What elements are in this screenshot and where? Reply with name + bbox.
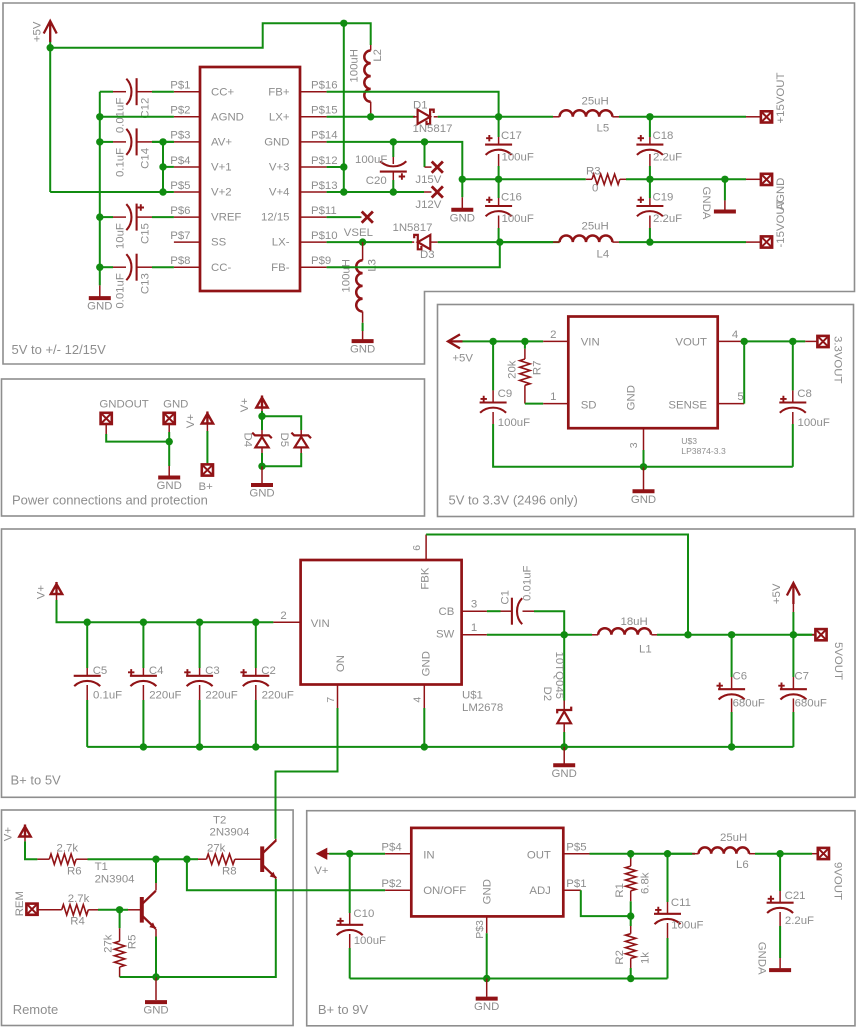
wire	[255, 622, 257, 668]
capacitor C21 plates	[767, 902, 794, 904]
svg-text:100uF: 100uF	[502, 152, 534, 164]
pin P$5 OUT	[563, 853, 589, 855]
wire	[498, 117, 500, 137]
pin 5 SENSE	[718, 403, 745, 405]
junction C3 gnd	[196, 743, 203, 750]
wire	[120, 976, 156, 978]
zener D5 body	[291, 433, 311, 439]
pin 4 VOUT	[718, 340, 745, 342]
wire	[423, 708, 425, 747]
svg-text:V+1: V+1	[211, 162, 232, 174]
pad REM box	[26, 904, 37, 915]
svg-text:4: 4	[412, 697, 424, 703]
capacitor C8 plates	[779, 401, 806, 403]
svg-text:220uF: 220uF	[262, 690, 294, 702]
transistor T2 body	[260, 846, 264, 872]
wire	[327, 241, 412, 243]
wire	[649, 179, 651, 198]
svg-text:GND: GND	[482, 879, 494, 904]
svg-text:5V to +/- 12/15V: 5V to +/- 12/15V	[12, 342, 107, 357]
plus C9	[481, 396, 487, 402]
wire	[86, 622, 88, 668]
svg-text:GND: GND	[552, 768, 577, 780]
pad B+	[202, 464, 213, 475]
ground GND box4	[553, 763, 575, 767]
svg-text:GND: GND	[474, 1001, 499, 1013]
pin P$15 LX+	[300, 116, 327, 118]
svg-text:5: 5	[737, 391, 743, 403]
wire	[498, 166, 500, 179]
svg-text:P$9: P$9	[311, 255, 331, 267]
wire	[120, 909, 128, 911]
pin P$2 ON/OFF	[385, 889, 411, 891]
junction T1 collector	[152, 856, 159, 863]
capacitor C10 plates	[336, 924, 363, 926]
wire	[643, 450, 645, 467]
wire	[487, 634, 592, 636]
zener D5	[300, 430, 302, 435]
junction P$3	[96, 138, 103, 145]
svg-text:25uH: 25uH	[582, 96, 609, 108]
wire	[152, 141, 174, 143]
svg-text:2: 2	[550, 329, 556, 341]
plus C10	[337, 918, 343, 924]
svg-text:C5: C5	[93, 665, 108, 677]
svg-text:OUT: OUT	[527, 850, 551, 862]
svg-text:2.2uF: 2.2uF	[653, 152, 682, 164]
capacitor C15 plates	[136, 204, 138, 231]
svg-text:C13: C13	[139, 273, 151, 294]
svg-text:6: 6	[411, 545, 423, 551]
wire	[255, 700, 257, 747]
diode D1 1N5817	[413, 116, 418, 118]
svg-text:GND: GND	[631, 494, 656, 506]
resistor R2 zigzag	[626, 934, 636, 959]
svg-text:ON/OFF: ON/OFF	[423, 885, 466, 897]
junction gnd mid	[459, 176, 466, 183]
svg-text:GND: GND	[264, 137, 289, 149]
plus C7	[778, 683, 784, 689]
junction divider	[627, 912, 634, 919]
svg-text:R7: R7	[532, 361, 544, 376]
svg-text:0.1uF: 0.1uF	[93, 690, 122, 702]
svg-text:7: 7	[325, 697, 337, 703]
svg-text:100uF: 100uF	[355, 154, 387, 166]
svg-text:C6: C6	[733, 671, 748, 683]
junction base R5	[116, 906, 123, 913]
junction C7	[790, 631, 797, 638]
svg-text:V+: V+	[36, 585, 48, 600]
svg-text:GND: GND	[350, 344, 375, 356]
junction C11 top	[664, 850, 671, 857]
wire	[362, 323, 364, 331]
wire D5 bottom	[262, 453, 301, 466]
plus C15	[138, 204, 144, 210]
wire	[99, 92, 101, 286]
svg-text:27k: 27k	[103, 934, 115, 953]
wire remote to on/off	[187, 859, 385, 890]
zener D4 body	[252, 433, 272, 439]
junction C21	[776, 850, 783, 857]
svg-text:6.8k: 6.8k	[640, 872, 652, 894]
capacitor C4 plates	[130, 675, 157, 677]
wire	[492, 341, 494, 390]
svg-text:2.2uF: 2.2uF	[785, 915, 814, 927]
svg-text:P$2: P$2	[381, 878, 401, 890]
wire FB+ right	[327, 92, 499, 117]
svg-text:C20: C20	[366, 175, 387, 187]
svg-text:25uH: 25uH	[720, 832, 747, 844]
resistor R3 0	[586, 178, 592, 180]
junction GNDA	[721, 176, 728, 183]
wire	[499, 178, 586, 180]
wire P14 gnd	[327, 142, 463, 179]
svg-text:220uF: 220uF	[205, 690, 237, 702]
wire	[792, 612, 794, 635]
wire	[724, 179, 726, 200]
svg-text:1: 1	[471, 622, 477, 634]
svg-text:P$12: P$12	[311, 155, 338, 167]
svg-text:C18: C18	[653, 130, 674, 142]
wire	[462, 178, 498, 180]
wire	[563, 732, 565, 747]
svg-text:Power connections and protecti: Power connections and protection	[12, 492, 208, 507]
capacitor C3 plates	[186, 675, 213, 677]
svg-text:4: 4	[732, 329, 738, 341]
svg-text:100uF: 100uF	[671, 920, 703, 932]
svg-text:C1: C1	[500, 590, 512, 605]
svg-text:C17: C17	[501, 130, 522, 142]
svg-text:1: 1	[550, 391, 556, 403]
svg-text:C10: C10	[353, 908, 374, 920]
svg-text:FB+: FB+	[268, 86, 290, 98]
ground GND box6	[476, 997, 498, 1001]
svg-text:GND: GND	[163, 399, 188, 411]
junction C20 bottom	[390, 188, 397, 195]
wire	[524, 341, 526, 348]
pad GNDOUT box	[101, 413, 112, 424]
svg-text:LX-: LX-	[272, 237, 290, 249]
svg-text:P$14: P$14	[311, 130, 338, 142]
svg-text:LM2678: LM2678	[462, 702, 503, 714]
svg-text:C16: C16	[501, 192, 522, 204]
inductor L3 coil	[356, 260, 362, 311]
svg-text:CC+: CC+	[211, 86, 234, 98]
junction C20 top	[390, 138, 397, 145]
wire D5 top	[262, 416, 301, 430]
+5V arrow box4	[787, 583, 800, 604]
wire	[725, 178, 746, 180]
pad -15VOUT	[761, 236, 772, 247]
section frame: B+ to 5V	[2, 529, 856, 797]
svg-text:AGND: AGND	[211, 111, 244, 123]
svg-text:P$7: P$7	[170, 230, 190, 242]
junction C18 C19	[646, 176, 653, 183]
wire	[779, 854, 781, 891]
IC U1 body	[200, 67, 300, 291]
capacitor C11 plates	[654, 913, 681, 915]
pin P$7 SS	[174, 241, 200, 243]
svg-text:LX+: LX+	[269, 111, 290, 123]
svg-text:ON: ON	[335, 655, 347, 672]
junction gnd pin box6	[483, 975, 490, 982]
wire	[498, 228, 500, 242]
wire	[498, 179, 500, 198]
svg-text:B+: B+	[199, 481, 214, 493]
svg-text:D1: D1	[413, 100, 428, 112]
wire	[649, 166, 651, 179]
capacitor C5 plates	[74, 675, 101, 677]
wire	[630, 901, 632, 916]
pin P$14 GND	[300, 141, 327, 143]
V+ supply box5	[19, 825, 30, 837]
wire	[261, 411, 263, 416]
wire	[261, 416, 263, 430]
svg-text:C9: C9	[498, 388, 513, 400]
svg-text:L5: L5	[597, 123, 610, 135]
wire	[392, 142, 394, 157]
pin P$12 V+3	[300, 166, 327, 168]
svg-text:V+2: V+2	[211, 187, 232, 199]
section frame: 5V to +/- 12/15V	[3, 3, 855, 364]
svg-text:C8: C8	[797, 388, 812, 400]
svg-text:ADJ: ADJ	[529, 885, 551, 897]
pin 3 CB	[462, 610, 487, 612]
junction P$6	[96, 213, 103, 220]
ground GND box3	[633, 489, 655, 493]
svg-text:0: 0	[592, 183, 598, 195]
wire C7 gnd	[792, 712, 794, 747]
svg-text:REM: REM	[14, 891, 26, 916]
svg-text:GND: GND	[87, 301, 112, 313]
junction C4	[140, 619, 147, 626]
wire	[793, 634, 812, 636]
svg-text:L2: L2	[372, 49, 384, 62]
wire FB- loop	[327, 242, 500, 267]
wire	[743, 341, 745, 403]
wire	[499, 116, 553, 118]
plus C17	[486, 135, 492, 141]
wire	[500, 241, 553, 243]
wire +5V top run	[50, 23, 371, 47]
svg-text:L3: L3	[366, 259, 378, 272]
svg-text:10TQ045: 10TQ045	[553, 652, 565, 700]
svg-text:L1: L1	[639, 644, 652, 656]
svg-text:CC-: CC-	[211, 262, 231, 274]
wire T1 emitter	[155, 929, 157, 937]
wire fbk	[426, 535, 688, 635]
svg-text:5VOUT: 5VOUT	[832, 642, 844, 680]
svg-text:L4: L4	[597, 249, 610, 261]
wire	[87, 746, 424, 748]
plus C4	[128, 669, 134, 675]
wire	[329, 853, 385, 855]
pad AGND	[761, 174, 772, 185]
svg-text:1N5817: 1N5817	[393, 222, 433, 234]
svg-text:P$1: P$1	[170, 80, 190, 92]
resistor R4 zigzag	[62, 905, 89, 915]
wire	[152, 266, 174, 268]
inductor L6 coil	[699, 847, 749, 853]
svg-text:V+3: V+3	[269, 162, 290, 174]
pin P$10 LX-	[300, 241, 327, 243]
junction C8 top	[789, 338, 796, 345]
wire	[667, 854, 669, 902]
pin P$11 12/15	[300, 216, 327, 218]
section frame: B+ to 9V	[307, 811, 855, 1026]
ground GND L3	[352, 339, 374, 343]
V+ supply B+	[202, 412, 213, 424]
svg-text:P$4: P$4	[170, 155, 190, 167]
junction C6	[728, 631, 735, 638]
wire c1 sw	[534, 611, 564, 635]
wire	[755, 853, 780, 855]
svg-text:P$6: P$6	[170, 205, 190, 217]
junction C10	[346, 850, 353, 857]
wire	[155, 859, 157, 883]
inductor L2 coil	[364, 51, 370, 102]
wire	[438, 116, 499, 118]
svg-text:100uH: 100uH	[340, 259, 352, 293]
svg-text:C14: C14	[139, 148, 151, 169]
svg-text:12/15: 12/15	[261, 212, 290, 224]
pin P$6 VREF	[174, 216, 200, 218]
IC U2 body	[411, 828, 563, 917]
svg-text:18uH: 18uH	[621, 616, 648, 628]
wire	[142, 622, 144, 668]
svg-text:P$1: P$1	[566, 878, 586, 890]
svg-text:GND: GND	[249, 488, 274, 500]
svg-text:P$4: P$4	[381, 842, 401, 854]
wire	[657, 634, 815, 636]
wire	[50, 191, 163, 193]
svg-text:IN: IN	[423, 850, 434, 862]
svg-text:2N3904: 2N3904	[210, 827, 250, 839]
svg-text:R5: R5	[126, 935, 138, 950]
wire	[461, 179, 463, 197]
resistor R5 zigzag	[114, 941, 124, 967]
junction +5V rail	[47, 44, 54, 51]
svg-text:AV+: AV+	[211, 137, 232, 149]
junction D1 out	[495, 113, 502, 120]
capacitor C19 plates	[636, 205, 663, 207]
svg-text:100uF: 100uF	[502, 213, 534, 225]
capacitor C12 plates	[136, 78, 138, 105]
ground GNDA bar	[714, 210, 736, 214]
svg-text:680uF: 680uF	[733, 698, 765, 710]
svg-text:J15V: J15V	[415, 174, 441, 186]
ground GND center	[451, 208, 473, 212]
jumper J15V	[432, 162, 443, 173]
wire	[424, 746, 793, 748]
pin P$4 IN	[385, 853, 411, 855]
svg-text:C15: C15	[139, 223, 151, 244]
wire	[155, 937, 157, 978]
wire	[163, 166, 174, 168]
wire	[780, 853, 812, 855]
pin P$5 V+2	[174, 191, 200, 193]
pad 5VOUT box	[815, 629, 826, 640]
pin P$1 CC+	[174, 91, 200, 93]
svg-text:680uF: 680uF	[795, 698, 827, 710]
svg-text:P$3: P$3	[474, 920, 486, 939]
svg-text:V+: V+	[3, 827, 15, 842]
svg-text:27k: 27k	[207, 843, 226, 855]
wire	[261, 453, 263, 466]
svg-text:25uH: 25uH	[582, 221, 609, 233]
wire	[563, 635, 565, 701]
plus C18	[638, 135, 644, 141]
resistor R1 zigzag	[626, 866, 636, 891]
svg-text:+15VOUT: +15VOUT	[775, 72, 787, 123]
junction R2 gnd	[627, 975, 634, 982]
inductor L5 coil	[560, 110, 613, 117]
pin 4 GND stub	[423, 685, 425, 709]
wire	[86, 700, 88, 747]
wire	[100, 266, 113, 268]
svg-text:D5: D5	[278, 433, 290, 448]
svg-text:R3: R3	[586, 166, 601, 178]
svg-text:100uF: 100uF	[798, 417, 830, 429]
svg-text:C4: C4	[149, 665, 164, 677]
pin 6 FBK stub	[425, 535, 427, 561]
junction gnd pads	[166, 438, 173, 445]
pin 3 GND stub	[643, 428, 645, 450]
svg-text:0.01uF: 0.01uF	[114, 273, 126, 309]
IC U1 LM2678 body	[301, 560, 462, 685]
svg-text:FBK: FBK	[420, 567, 432, 590]
wire	[98, 909, 120, 911]
svg-text:VREF: VREF	[211, 212, 241, 224]
plus C16	[486, 197, 492, 203]
junction P$4	[159, 163, 166, 170]
resistor R3 zigzag	[592, 174, 620, 184]
pin 7 ON stub	[337, 685, 339, 709]
wire	[744, 340, 805, 342]
plus C19	[638, 197, 644, 203]
junction LX+ L2	[367, 113, 374, 120]
wire v+ r6	[25, 841, 37, 859]
wire	[731, 635, 733, 677]
svg-text:V+: V+	[239, 398, 251, 413]
V+ supply diodes	[256, 396, 267, 408]
junction mid rail C17	[495, 176, 502, 183]
svg-text:P$8: P$8	[170, 255, 190, 267]
section frame: 5V to 3.3V	[438, 305, 854, 517]
junction L3 top	[359, 238, 366, 245]
wire	[525, 403, 543, 405]
wire	[100, 141, 113, 143]
svg-text:P$11: P$11	[311, 205, 337, 217]
wire	[500, 241, 560, 243]
wire	[463, 340, 544, 342]
svg-text:100uF: 100uF	[354, 935, 386, 947]
svg-text:SS: SS	[211, 237, 227, 249]
svg-text:D2: D2	[541, 687, 553, 702]
svg-text:3.3VOUT: 3.3VOUT	[832, 336, 844, 384]
wire	[152, 216, 174, 218]
pin P$2 AGND	[174, 116, 200, 118]
pin P$16 FB+	[300, 91, 327, 93]
junction gnd rail	[640, 463, 647, 470]
wire	[162, 142, 164, 192]
capacitor C6 plates	[718, 688, 745, 690]
junction fbk	[684, 631, 691, 638]
svg-text:P$13: P$13	[311, 180, 338, 192]
svg-text:+5V: +5V	[32, 21, 44, 42]
jumper VSEL	[362, 212, 373, 223]
svg-text:VIN: VIN	[311, 618, 330, 630]
